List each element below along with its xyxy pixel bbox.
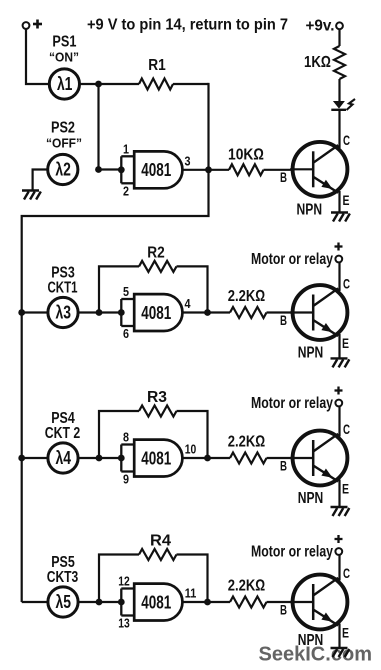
resistor 2.2KΩ (stage 4): [228, 578, 293, 608]
svg-text:B: B: [280, 459, 287, 474]
node gate-4 out: [204, 599, 211, 606]
terminal +9v: [336, 22, 343, 29]
wire rail to lamp PS5: [22, 601, 48, 603]
svg-text:10KΩ: 10KΩ: [228, 147, 264, 164]
wire λ1 to node A: [80, 83, 98, 85]
svg-text:B: B: [280, 603, 287, 618]
gate U1 stage3 input bracket / junction: [118, 445, 136, 472]
label CKT 2: [45, 425, 81, 442]
wire lamp to gate-2 input: [78, 311, 121, 313]
ground (PS2): [22, 191, 41, 200]
gate U1 stage4 gate body + 4081 label: [134, 584, 182, 621]
wire λ2 to ground: [33, 170, 48, 191]
svg-text:B: B: [280, 170, 287, 185]
svg-text:R3: R3: [147, 389, 167, 406]
motor terminal (stage 4): [335, 548, 342, 555]
svg-text:Motor or relay: Motor or relay: [251, 544, 333, 561]
svg-text:Motor or relay: Motor or relay: [251, 395, 333, 412]
svg-text:λ1: λ1: [57, 74, 73, 94]
transistor Q4 NPN: [290, 575, 347, 630]
gate U1a pin labels: [123, 141, 191, 198]
label + (stage 2): [335, 243, 343, 251]
resistor R2 feedback: [99, 245, 208, 311]
label PS3: [51, 264, 75, 281]
wire gate-4 output: [183, 601, 230, 603]
rail junction (stage 2): [18, 309, 25, 316]
svg-text:2: 2: [123, 183, 129, 198]
svg-text:8: 8: [123, 430, 129, 445]
svg-text:B: B: [280, 313, 287, 328]
label NPN (Q3): [298, 490, 324, 507]
svg-text:2.2KΩ: 2.2KΩ: [228, 578, 266, 595]
label + (stage 3): [335, 387, 343, 395]
label + (stage 4): [335, 535, 343, 543]
wire rail to lamp PS3: [22, 311, 48, 313]
node gate-3 out: [204, 455, 211, 462]
svg-text:Motor or relay: Motor or relay: [251, 251, 333, 268]
wire node B to gate-1 input: [99, 168, 122, 170]
svg-text:3: 3: [185, 153, 191, 168]
svg-text:1KΩ: 1KΩ: [304, 54, 331, 71]
rail junction (stage 3): [18, 455, 25, 462]
wire R1 down to gate-1 output node: [207, 83, 209, 170]
wire gate-3 output: [183, 457, 230, 459]
svg-text:NPN: NPN: [298, 632, 324, 649]
svg-text:10: 10: [185, 442, 197, 457]
label E (Q4): [342, 626, 349, 641]
svg-text:E: E: [342, 482, 349, 497]
label +9V to pin 14: [87, 17, 288, 34]
svg-text:PS1: PS1: [52, 34, 76, 51]
label Motor or relay (stage 4): [251, 544, 333, 561]
svg-text:5: 5: [123, 284, 129, 299]
indicator lamp PS3 &#955;3: [48, 297, 78, 327]
label C (Q3): [343, 422, 350, 437]
svg-text:4081: 4081: [141, 448, 171, 468]
svg-text:6: 6: [123, 326, 129, 341]
svg-text:E: E: [342, 626, 349, 641]
label B (Q1): [280, 170, 287, 185]
label PS2: [51, 120, 75, 137]
wire Q4 emitter to ground: [338, 624, 340, 649]
label CKT3: [47, 569, 79, 586]
gate U1 stage4 input bracket / junction: [118, 589, 136, 616]
gate U1a input bracket / junction: [118, 156, 136, 183]
wire Q2 emitter to ground: [338, 334, 340, 358]
svg-text:R4: R4: [150, 533, 171, 550]
wire Q4 collector to motor terminal: [338, 555, 340, 581]
resistor R1: [99, 57, 209, 90]
svg-text:2.2KΩ: 2.2KΩ: [228, 434, 266, 451]
label +9v.: [306, 18, 335, 35]
svg-text:4081: 4081: [141, 592, 171, 612]
wire Q2 collector to motor terminal: [338, 262, 340, 291]
svg-text:9: 9: [123, 472, 129, 487]
wire node A down to λ2 node: [97, 84, 99, 170]
wire 1K to +9v terminal: [338, 29, 340, 46]
label NPN (Q2): [298, 345, 324, 362]
label PS5: [51, 554, 75, 571]
gate U1 stage2 pin labels: [123, 284, 191, 341]
svg-text:CKT3: CKT3: [47, 569, 79, 586]
svg-text:C: C: [343, 133, 350, 148]
gate U1 stage3 gate body + 4081 label: [134, 440, 182, 477]
gate U1 stage3 pin labels: [123, 430, 196, 487]
wire Q3 emitter to ground: [338, 480, 340, 508]
label CKT1: [48, 279, 78, 296]
resistor R3 feedback: [99, 389, 208, 456]
label NPN (Q1): [297, 202, 323, 219]
gate U1 stage2 input bracket / junction: [118, 299, 136, 326]
svg-text:C: C: [343, 276, 350, 291]
label NPN (Q4): [298, 632, 324, 649]
svg-text:4: 4: [185, 296, 192, 311]
transistor Q3 NPN: [290, 431, 347, 486]
svg-text:NPN: NPN: [298, 490, 324, 507]
node B (λ2 output): [95, 166, 102, 173]
svg-text:E: E: [342, 336, 349, 351]
svg-text:4081: 4081: [141, 303, 171, 323]
svg-text:12: 12: [118, 574, 130, 589]
ground (Q1): [331, 213, 350, 222]
feedback node (stage 2): [96, 309, 103, 316]
ground (Q4): [331, 648, 350, 657]
svg-text:λ4: λ4: [56, 448, 72, 468]
indicator lamp PS5 &#955;5: [48, 587, 78, 617]
resistor 2.2KΩ (stage 2): [228, 288, 293, 318]
svg-text:2.2KΩ: 2.2KΩ: [228, 288, 266, 305]
svg-text:+9 V to pin 14, return to pin: +9 V to pin 14, return to pin 7: [87, 17, 288, 34]
feedback node (stage 4): [96, 599, 103, 606]
resistor R4 feedback: [99, 533, 208, 600]
svg-text:NPN: NPN: [298, 345, 324, 362]
label B (Q2): [280, 313, 287, 328]
label PS4: [51, 410, 75, 427]
svg-text:C: C: [343, 422, 350, 437]
svg-text:+9v.: +9v.: [306, 18, 335, 35]
svg-text:NPN: NPN: [297, 202, 323, 219]
node A: [95, 81, 102, 88]
svg-text:CKT1: CKT1: [48, 279, 78, 296]
LED D1: [331, 99, 355, 110]
motor terminal (stage 2): [335, 256, 342, 263]
svg-text:λ5: λ5: [56, 592, 72, 612]
resistor 10KΩ: [228, 147, 293, 176]
wire lamp to gate-4 input: [78, 601, 121, 603]
label Motor or relay (stage 3): [251, 395, 333, 412]
svg-text:1: 1: [123, 141, 129, 156]
wire terminal to lamp PS1: [26, 29, 49, 84]
node C (gate-1 out): [205, 166, 212, 173]
svg-text:R1: R1: [148, 57, 166, 74]
wire gate-2 output: [183, 311, 230, 313]
supply terminal + (top left): [23, 20, 42, 29]
label C (Q4): [343, 566, 350, 581]
wire Q1 emitter to ground: [338, 191, 340, 213]
label B (Q4): [280, 603, 287, 618]
label C (Q1): [343, 133, 350, 148]
resistor 1KΩ: [304, 46, 345, 79]
label PS1: [52, 34, 76, 51]
label B (Q3): [280, 459, 287, 474]
resistor 2.2KΩ (stage 3): [228, 434, 293, 464]
indicator lamp PS2 λ2: [48, 154, 78, 184]
wire rail to lamp PS4: [22, 457, 48, 459]
wire gate-1 output: [183, 169, 229, 171]
wire LED to 1K resistor: [338, 79, 340, 102]
label C (Q2): [343, 276, 350, 291]
transistor Q1 NPN: [290, 142, 347, 197]
svg-text:13: 13: [118, 616, 130, 631]
ground (Q3): [331, 507, 350, 516]
label OFF: [46, 137, 82, 151]
wire lamp to gate-3 input: [78, 457, 121, 459]
node gate-2 out: [204, 309, 211, 316]
gate U1 stage2 gate body + 4081 label: [134, 294, 182, 331]
svg-text:λ2: λ2: [55, 160, 71, 180]
svg-text:R2: R2: [147, 245, 165, 262]
label ON: [49, 51, 79, 65]
label Motor or relay (stage 2): [251, 251, 333, 268]
wire Q1 collector to LED: [338, 111, 340, 149]
indicator lamp PS1 λ1: [49, 69, 79, 99]
svg-text:C: C: [343, 566, 350, 581]
transistor Q2 NPN: [290, 285, 347, 340]
motor terminal (stage 3): [335, 400, 342, 407]
wire Q3 collector to motor terminal: [338, 406, 340, 437]
gate U1a gate body + 4081 label: [134, 151, 182, 188]
svg-text:“OFF”: “OFF”: [46, 137, 82, 151]
svg-text:“ON”: “ON”: [49, 51, 79, 65]
svg-text:4081: 4081: [141, 160, 171, 180]
watermark SeekIC.com: [259, 643, 373, 666]
gate U1 stage4 pin labels: [118, 574, 196, 631]
feedback node (stage 3): [96, 455, 103, 462]
svg-text:CKT 2: CKT 2: [45, 425, 81, 442]
label E (Q2): [342, 336, 349, 351]
label E (Q1): [343, 193, 350, 208]
label E (Q3): [342, 482, 349, 497]
indicator lamp PS4 &#955;4: [48, 443, 78, 473]
ground (Q2): [331, 358, 350, 367]
svg-text:E: E: [343, 193, 350, 208]
svg-text:λ3: λ3: [56, 303, 72, 323]
wire gate-1 node down and left (bus): [22, 170, 209, 602]
svg-text:11: 11: [185, 586, 197, 601]
svg-text:PS2: PS2: [51, 120, 75, 137]
